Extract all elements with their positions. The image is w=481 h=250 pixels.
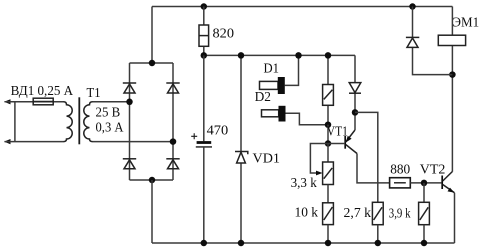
svg-text:0,3 А: 0,3 А [96, 120, 125, 135]
wire D1 branch [285, 55, 299, 85]
transformer T1 secondary winding [84, 102, 93, 142]
wire 2,7k bottom [377, 225, 379, 243]
svg-text:25 В: 25 В [96, 106, 121, 121]
node junction bottom of 820 [201, 52, 208, 59]
wire 3,9k top [423, 183, 425, 202]
svg-text:D1: D1 [264, 61, 280, 76]
plug arrow top [4, 99, 64, 104]
capacitor 470 [196, 143, 212, 147]
wire bridge left branch [129, 63, 131, 180]
wire between junctions [327, 125, 329, 144]
wire secondary bottom lead [93, 141, 174, 143]
node zener branch bottom [238, 240, 245, 247]
svg-text:820: 820 [213, 26, 235, 41]
svg-text:10 k: 10 k [295, 206, 319, 221]
bridge diode bottom-right [166, 159, 179, 169]
label 3,9 k [389, 207, 411, 222]
wire plug vertical [14, 102, 16, 142]
wire VT1 emitter down [357, 154, 390, 183]
svg-text:ЭМ1: ЭМ1 [452, 16, 479, 31]
wire bottom rail [152, 242, 455, 244]
label 3,3 k [291, 176, 317, 191]
node D2/resistor junction [325, 121, 332, 128]
node secondary bottom to bridge [170, 138, 177, 145]
zener diode VD1 [235, 152, 248, 164]
svg-text:VD1: VD1 [253, 152, 281, 167]
wire bridge bottom drop [151, 180, 153, 243]
label D1 [264, 61, 280, 76]
diode D2 [262, 106, 286, 122]
svg-text:470: 470 [207, 124, 229, 139]
wire potentiometer wiper [310, 144, 328, 176]
resistor 2,7 k [372, 202, 383, 224]
wire bridge top [130, 62, 174, 64]
svg-text:ВД1 0,25 А: ВД1 0,25 А [11, 84, 74, 99]
label VD1 [253, 152, 281, 167]
node D1 branch top [295, 52, 302, 59]
wire upper resistor branch [327, 55, 329, 124]
label ВД1 0,25 А [11, 84, 74, 99]
resistor 880 [390, 178, 411, 188]
transistor VT1 [345, 130, 357, 154]
label VT2 [420, 163, 446, 178]
wire top rail [152, 6, 452, 8]
wire 3,3k to 10k [327, 185, 329, 203]
resistor 10 k [323, 203, 334, 225]
wire secondary top lead [93, 101, 130, 103]
node secondary top to bridge [126, 99, 133, 106]
capacitor plus sign [191, 133, 197, 139]
node junction top of R 820 [201, 3, 208, 10]
resistor 820 [199, 7, 209, 56]
bridge diode top-right [166, 83, 179, 93]
svg-text:880: 880 [390, 163, 410, 178]
transformer T1 primary winding [64, 102, 73, 142]
label 0,3 А [96, 120, 125, 135]
plug arrow bottom [4, 139, 64, 144]
bridge diode top-left [123, 83, 136, 93]
svg-text:3,9 k: 3,9 k [389, 207, 411, 222]
label 10 k [295, 206, 319, 221]
node upper resistor top [325, 52, 332, 59]
node bridge top junction [149, 60, 156, 67]
node 10k bottom [325, 240, 332, 247]
wire 3,9k bottom [423, 225, 425, 243]
node cap branch bottom [201, 240, 208, 247]
wire tap to 2,7k [355, 112, 378, 202]
wire 880 to VT2 base [410, 182, 441, 184]
node bridge bottom junction [149, 177, 156, 184]
svg-text:2,7 k: 2,7 k [344, 206, 372, 221]
bridge diode bottom-left [123, 159, 136, 169]
label D2 [255, 90, 271, 105]
svg-text:VT1: VT1 [327, 124, 348, 139]
label 820 [213, 26, 235, 41]
diode (unlabeled, collector of VT1) [349, 83, 361, 94]
resistor 3,9 k [419, 202, 430, 224]
wire bridge bottom [130, 179, 174, 181]
wire rail2 (after 820) [204, 54, 355, 56]
wire VT2 emitter down [454, 193, 456, 243]
node VT2 base / 3,9k junction [421, 180, 428, 187]
transformer T1 core [78, 97, 80, 144]
wire zener branch [240, 55, 242, 243]
fuse ВД1 [33, 98, 53, 105]
resistor (unlabeled, above VT1 base node) [323, 85, 334, 106]
wire bridge right branch [172, 63, 174, 180]
transistor VT2 [442, 172, 454, 193]
node base/wiper junction [325, 140, 332, 147]
svg-text:3,3 k: 3,3 k [291, 176, 317, 191]
node relay/diode junction [449, 71, 456, 78]
svg-text:D2: D2 [255, 90, 271, 105]
wire VT2 collector up to relay [451, 46, 453, 172]
node junction top of freewheel diode [409, 3, 416, 10]
node 3,9k bottom [421, 240, 428, 247]
wire VT1 base [328, 143, 344, 145]
label 470 [207, 124, 229, 139]
label 2,7 k [344, 206, 372, 221]
freewheel diode across relay [406, 7, 453, 75]
node zener branch top [238, 52, 245, 59]
node 2,7k bottom [375, 240, 382, 247]
label 880 [390, 163, 410, 178]
node collector tap [352, 109, 359, 116]
label 25 В [96, 106, 121, 121]
svg-text:VT2: VT2 [420, 163, 446, 178]
wire top-left drop to bridge [151, 7, 153, 64]
diode D1 [260, 77, 285, 94]
wire VT1 collector up [354, 55, 356, 130]
wire main mid vertical [203, 55, 205, 243]
label T1 [87, 86, 101, 101]
svg-text:T1: T1 [87, 86, 101, 101]
label ЭМ1 [452, 16, 479, 31]
wire D2 route [286, 113, 329, 124]
label VT1 [327, 124, 348, 139]
relay coil ЭМ1 [438, 7, 465, 46]
potentiometer 3,3 k [323, 144, 334, 185]
wire 10k bottom [327, 225, 329, 243]
